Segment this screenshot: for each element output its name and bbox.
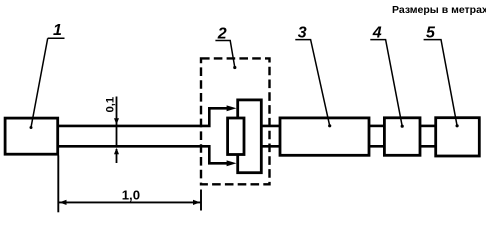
svg-text:1: 1 [53,22,62,39]
svg-text:1,0: 1,0 [122,187,140,202]
svg-text:Размеры в метрах: Размеры в метрах [392,4,486,16]
svg-text:0,1: 0,1 [104,97,116,113]
